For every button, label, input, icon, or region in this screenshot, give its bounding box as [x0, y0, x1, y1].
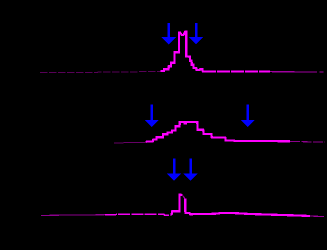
- spectrum 1 main trace: [161, 32, 204, 72]
- spectrum 3 baseline left dim part: [41, 214, 105, 217]
- spectrum 3 doublet valley connector: [183, 196, 185, 199]
- arrow 1 right: [189, 23, 203, 45]
- spectrum 2 main trace: [146, 122, 290, 142]
- spectrum 1 baseline right (dim): [270, 71, 324, 73]
- spectrum 3 peak left bar and top block: [172, 195, 183, 216]
- spectrum 1 baseline right bright segment: [203, 70, 270, 72]
- arrow 1 left: [162, 23, 176, 45]
- spectrum 3 peak right bar and tail: [185, 199, 310, 216]
- spectrum 3 baseline right (dim end): [310, 215, 324, 218]
- arrow 2 left: [145, 105, 159, 127]
- spectrum 3 baseline left bright part: [105, 214, 172, 215]
- arrow 3 left: [167, 159, 181, 181]
- spectrum 2 tail left (dim): [114, 141, 146, 144]
- spectrum 1 baseline left (dim): [40, 71, 161, 72]
- arrow 2 right: [241, 105, 255, 127]
- spectrum 2 tail right (dim): [290, 140, 325, 143]
- arrow 3 right: [183, 159, 197, 181]
